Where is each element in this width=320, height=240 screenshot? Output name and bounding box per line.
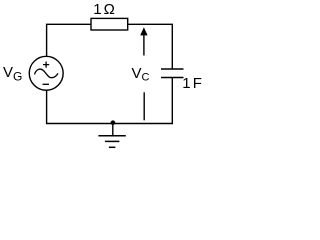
wire bottom horizontal segment xyxy=(46,123,173,125)
svg-text:1 F: 1 F xyxy=(182,75,202,92)
source plus sign xyxy=(43,62,49,68)
VC arrow head xyxy=(140,27,147,35)
source minus sign xyxy=(43,83,50,85)
source sine wave xyxy=(35,69,59,78)
capacitor C1 top plate xyxy=(161,68,184,70)
ground bar 1 xyxy=(98,135,125,137)
ground bar 2 xyxy=(105,140,120,142)
junction dot node xyxy=(111,120,116,125)
ground bar 3 xyxy=(109,146,116,148)
source U1 circle xyxy=(29,56,63,90)
ground stem xyxy=(112,123,114,136)
capacitor C1 bottom plate xyxy=(161,77,184,79)
wire left vertical lower segment xyxy=(46,90,48,124)
wire top-right horizontal segment xyxy=(128,24,173,69)
VC arrow upper shaft xyxy=(143,35,145,56)
wire right vertical lower segment xyxy=(171,78,173,124)
svg-text:1Ω: 1Ω xyxy=(93,1,115,18)
VC arrow lower shaft xyxy=(143,92,145,120)
wire top-left horizontal segment xyxy=(47,24,91,56)
resistor R body xyxy=(91,18,128,30)
